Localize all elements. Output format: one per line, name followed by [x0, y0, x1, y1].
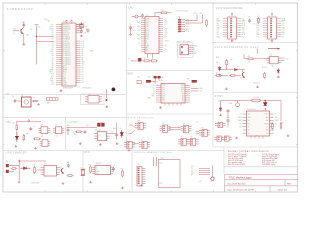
speaker dot SP1 — [112, 88, 116, 92]
capacitor C21 — [227, 119, 230, 123]
svg-text:DTR: DTR — [162, 85, 165, 87]
wire glcd v1 — [226, 66, 228, 69]
svg-text:BLK: BLK — [162, 98, 165, 100]
resistor R6 below IC2 — [150, 60, 158, 62]
svg-text:D5: D5 — [52, 41, 54, 43]
svg-text:PC5: PC5 — [217, 32, 220, 34]
svg-text:GND: GND — [181, 87, 184, 89]
wire glcd h3 — [221, 75, 228, 77]
section box speaker — [81, 94, 105, 105]
capacitor C18 — [115, 133, 118, 137]
wire diode down — [264, 110, 266, 111]
ic T3 box — [270, 57, 279, 64]
svg-text:VCC: VCC — [162, 91, 165, 93]
wire J6 left a — [196, 131, 200, 133]
svg-text:R28: R28 — [74, 134, 77, 136]
svg-text:1K: 1K — [144, 58, 146, 60]
speaker IC4 pins — [85, 97, 88, 101]
inductor L2 ufl — [32, 100, 39, 102]
svg-text:470: 470 — [248, 56, 251, 58]
svg-text:5V: 5V — [165, 26, 167, 28]
ground 5v a — [235, 137, 238, 139]
capacitor C9 — [87, 29, 90, 33]
svg-text:D8: D8 — [165, 49, 167, 51]
led D4 — [219, 107, 222, 112]
bob IC3 left pins — [156, 86, 161, 103]
resistor R11 — [229, 75, 236, 77]
wire IC2 bottom a — [147, 54, 149, 58]
svg-text:J15: J15 — [137, 164, 139, 166]
transistor Q2 — [243, 72, 245, 78]
charger IC7 body — [44, 166, 57, 177]
ground lipo a — [62, 182, 65, 184]
arrow glcd — [278, 48, 281, 50]
wire bob v1 — [154, 78, 156, 83]
svg-text:1K: 1K — [228, 73, 230, 75]
svg-text:D12: D12 — [82, 45, 85, 47]
wire Q1 collector vertical — [23, 22, 25, 29]
svg-text:TX0: TX0 — [137, 30, 140, 32]
svg-text:D9: D9 — [120, 128, 122, 130]
sd J15 contacts — [138, 168, 140, 184]
connector J9 — [178, 139, 189, 146]
svg-text:OSC: OSC — [6, 121, 12, 124]
ground lipo b — [18, 181, 21, 183]
svg-text:1u: 1u — [13, 33, 15, 35]
usb X1 pins — [189, 46, 194, 53]
svg-text:IN: IN — [248, 127, 250, 129]
svg-text:SP: SP — [89, 94, 91, 96]
regulator IC5 body — [98, 132, 107, 141]
svg-text:VCC: VCC — [194, 13, 197, 15]
speaker IC4 — [88, 96, 99, 104]
wire Q1 emitter vertical — [23, 34, 25, 43]
svg-text:VIN: VIN — [239, 127, 241, 129]
inductor L1 — [251, 99, 262, 101]
svg-text:R19: R19 — [12, 165, 15, 167]
svg-text:LED: LED — [230, 59, 233, 61]
junction 5v — [265, 100, 266, 101]
oscillator Q4 pins — [53, 128, 56, 132]
wire J9-J10 — [186, 140, 188, 142]
cpu IC2 right pins — [159, 18, 163, 51]
ground 3v3 c — [116, 142, 119, 144]
svg-text:BOB: BOB — [128, 72, 134, 75]
wire U1 right pin4 — [76, 26, 79, 28]
svg-text:SCK: SCK — [181, 102, 184, 104]
ground ufl — [37, 103, 40, 105]
svg-text:C4: C4 — [129, 24, 131, 26]
svg-text:CTS: CTS — [162, 93, 165, 95]
ufl connector X2 — [22, 97, 32, 107]
svg-text:10u: 10u — [111, 132, 114, 134]
svg-text:Q4: Q4 — [56, 136, 58, 138]
wire glcd h1 — [219, 69, 245, 71]
svg-text:1K: 1K — [152, 58, 154, 60]
capacitor C22 lipo — [67, 164, 70, 168]
ground 3v3 b — [99, 143, 102, 145]
svg-text:5V: 5V — [129, 58, 131, 60]
resistor R4 reset pullup — [160, 12, 168, 14]
svg-text:VCC: VCC — [137, 38, 140, 40]
svg-text:4.7K: 4.7K — [253, 24, 256, 26]
svg-text:GPIO1: GPIO1 — [165, 41, 170, 43]
oscillator Q3 — [41, 127, 48, 134]
svg-text:D10: D10 — [82, 41, 85, 43]
svg-text:VCC: VCC — [282, 30, 285, 32]
diode D8 osc — [15, 132, 18, 142]
svg-text:PD2: PD2 — [257, 27, 260, 29]
wire speaker v — [106, 90, 108, 99]
svg-text:MOSI: MOSI — [50, 28, 54, 30]
svg-text:XT1: XT1 — [51, 82, 54, 84]
svg-text:SER: SER — [137, 121, 140, 123]
svg-text:CTS: CTS — [152, 93, 155, 95]
svg-text:D6: D6 — [52, 39, 54, 41]
svg-text:FB: FB — [248, 120, 250, 122]
svg-text:GRN: GRN — [162, 100, 165, 102]
svg-text:0.1u: 0.1u — [113, 128, 116, 130]
svg-text:TX: TX — [153, 89, 155, 91]
svg-text:RX0: RX0 — [137, 26, 140, 28]
svg-text:GND: GND — [194, 53, 197, 55]
svg-text:PB1: PB1 — [146, 37, 149, 39]
capacitor C20 — [227, 109, 230, 113]
circle L1b — [236, 103, 240, 107]
svg-text:RST: RST — [181, 89, 184, 91]
wire bob sj — [151, 80, 155, 82]
svg-text:D3: D3 — [52, 45, 54, 47]
svg-text:SCK: SCK — [191, 172, 194, 174]
battery connector J14 — [6, 164, 9, 167]
svg-text:J2: J2 — [177, 17, 179, 19]
lcd header JP1 — [223, 17, 241, 39]
svg-text:3V3: 3V3 — [191, 166, 194, 168]
connector J11 — [215, 123, 226, 128]
diode D1 below IC2 — [138, 58, 141, 61]
wire reset button — [132, 16, 136, 18]
diode D6 — [21, 167, 31, 170]
svg-text:X2: X2 — [22, 95, 24, 97]
svg-text:GND: GND — [165, 28, 168, 30]
svg-text:TEST: TEST — [146, 51, 150, 53]
svg-text:MOSI: MOSI — [242, 23, 246, 25]
svg-text:10K: 10K — [30, 29, 33, 31]
boost IC6 body — [247, 111, 270, 136]
power U1 vcc a — [65, 20, 67, 23]
transistor Q1 — [21, 28, 23, 34]
svg-text:TITLE: MayNeoLogger: TITLE: MayNeoLogger — [229, 176, 252, 179]
svg-text:VCC: VCC — [282, 36, 285, 38]
ufl X2 inner — [24, 100, 28, 104]
reset button S1 — [135, 15, 138, 18]
section divider horizontal y=42.5 right — [213, 42, 298, 44]
svg-text:R7: R7 — [257, 16, 259, 18]
wire 5v r18 — [280, 101, 282, 122]
svg-text:VCC: VCC — [146, 22, 149, 24]
svg-text:LX: LX — [275, 127, 277, 129]
wire T3 right — [281, 57, 284, 59]
antenna circle E1 — [211, 177, 214, 180]
svg-text:FB: FB — [267, 133, 269, 135]
svg-text:PB2: PB2 — [146, 39, 149, 41]
ground crystal — [80, 35, 83, 37]
capacitor C12 lcd — [248, 19, 251, 23]
svg-text:GND: GND — [146, 18, 149, 20]
svg-text:VIN: VIN — [67, 125, 69, 127]
connector J10 — [188, 139, 199, 146]
title block top line — [225, 173, 298, 175]
svg-text:OSC: OSC — [26, 133, 29, 135]
ground glcd2 — [256, 86, 259, 88]
svg-text:MICROSD (ADAFRUIT P/N 1660): MICROSD (ADAFRUIT P/N 1660) — [134, 151, 172, 154]
section divider horizontal y=94.5 left — [3, 94, 127, 96]
svg-text:LX: LX — [267, 127, 269, 129]
connector J4 — [160, 125, 171, 132]
ground C11 — [129, 33, 132, 35]
wire lipo 3 — [37, 169, 45, 171]
connector J5 — [181, 126, 192, 133]
svg-text:TX: TX — [165, 18, 167, 20]
svg-text:5 VOLT: 5 VOLT — [215, 95, 224, 98]
svg-text:GLCD BUTTONPAD PG lower): GLCD BUTTONPAD PG lower) — [215, 46, 260, 49]
title block line 3 — [225, 185, 298, 187]
resistor R22 rtc — [90, 166, 92, 174]
svg-text:TX0: TX0 — [257, 36, 260, 38]
svg-text:IC2: IC2 — [146, 14, 149, 16]
led D7 glcd — [218, 66, 221, 71]
svg-text:D8: D8 — [52, 35, 54, 37]
svg-text:DTR: DTR — [152, 85, 155, 87]
capacitor C15 osc — [29, 127, 32, 131]
frame grid ticks — [3, 3, 298, 192]
usb connector X1 — [180, 45, 189, 55]
regulator IC5 pins — [95, 134, 98, 139]
svg-text:BOB1: BOB1 — [159, 80, 163, 82]
ground osc2 — [34, 147, 37, 149]
svg-text:3V3: 3V3 — [51, 74, 54, 76]
svg-text:MOSI: MOSI — [242, 34, 246, 36]
svg-text:Extra connectors: Extra connectors — [128, 116, 155, 119]
wire reset net — [155, 12, 160, 14]
diode D2 — [235, 68, 238, 70]
svg-text:PD3(INT1): PD3(INT1) — [63, 45, 71, 47]
svg-text:PB1(OC1): PB1(OC1) — [63, 33, 70, 35]
svg-text:GLCD_BL: GLCD_BL — [254, 83, 261, 85]
svg-text:MIC5205: MIC5205 — [95, 129, 101, 131]
title block sheet divider — [269, 186, 271, 192]
solder jumper SJ5 — [146, 80, 151, 83]
svg-text:R14: R14 — [187, 79, 190, 81]
wire below IC2 — [131, 60, 137, 62]
notes block bottom line — [224, 166, 298, 168]
svg-text:LCD: LCD — [286, 58, 289, 60]
svg-text:Document Number:: Document Number: — [228, 182, 247, 185]
svg-text:GND: GND — [255, 136, 258, 138]
wire J4-J5 a — [169, 126, 181, 128]
wire FTDI top — [179, 17, 181, 20]
wire bus vertical x=36 — [35, 27, 37, 65]
section divider vertical x=132 (RTC/MICROSD) — [131, 151, 133, 193]
bob IC3 bottom pins — [165, 103, 181, 106]
svg-text:ID: ID — [194, 51, 195, 53]
svg-text:PD4(XCK): PD4(XCK) — [63, 43, 71, 45]
svg-text:X1: X1 — [96, 167, 98, 169]
svg-text:RXD: RXD — [146, 26, 149, 28]
svg-text:J14: J14 — [5, 161, 7, 163]
svg-text:Y2: Y2 — [81, 167, 83, 169]
resistor R23 rtc — [122, 170, 124, 178]
resistor R20 lipo — [34, 166, 36, 174]
svg-text:32K: 32K — [41, 125, 44, 127]
svg-text:D2: D2 — [52, 47, 54, 49]
svg-text:PB2(SS): PB2(SS) — [63, 30, 69, 32]
svg-text:0.1u: 0.1u — [22, 22, 25, 24]
svg-text:RX: RX — [165, 20, 167, 22]
bob IC3 body — [161, 84, 185, 104]
ground osc1 — [14, 145, 17, 147]
svg-text:5V: 5V — [153, 91, 155, 93]
sd connector J15 — [137, 167, 142, 187]
ground led D7 — [218, 74, 221, 76]
svg-text:L1 10uH: L1 10uH — [253, 97, 259, 99]
ground rtc a — [89, 181, 92, 183]
microcontroller U1 left pins — [56, 25, 62, 85]
wire IC2 bottom b — [152, 54, 154, 58]
svg-text:VCC: VCC — [217, 30, 220, 32]
svg-text:RX TX: RX TX — [154, 82, 158, 84]
title block rev divider — [284, 180, 286, 186]
svg-text:IC7: IC7 — [45, 163, 47, 165]
svg-text:SCK: SCK — [50, 24, 53, 26]
sd socket notch — [159, 163, 163, 183]
wire U1 right pin3 — [76, 28, 79, 30]
svg-text:TXD: TXD — [146, 24, 149, 26]
svg-text:MOSI: MOSI — [282, 18, 286, 20]
section box mini USB — [178, 43, 194, 58]
ground sd — [140, 184, 143, 186]
svg-text:PD2: PD2 — [257, 32, 260, 34]
svg-text:XT: XT — [138, 43, 140, 45]
power JP1 — [231, 13, 233, 16]
svg-text:J10: J10 — [190, 137, 192, 139]
power U1 vcc b — [70, 20, 72, 23]
svg-text:EN: EN — [240, 123, 242, 125]
svg-text:R2: R2 — [48, 21, 50, 23]
ground 3v3 a — [79, 142, 82, 144]
svg-text:3V3: 3V3 — [86, 125, 89, 127]
svg-text:BL: BL — [237, 66, 239, 68]
capacitor C16 — [67, 128, 70, 132]
svg-text:SCK: SCK — [242, 30, 245, 32]
resistor R5 below IC2 — [143, 60, 151, 62]
svg-text:VCC: VCC — [46, 19, 49, 21]
svg-text:EN: EN — [248, 123, 250, 125]
ground glcd3 — [277, 76, 280, 78]
wire bob v2 — [158, 78, 160, 80]
resistor R26 osc — [23, 134, 25, 141]
svg-text:X2: X2 — [96, 169, 98, 171]
svg-text:RTC: RTC — [85, 151, 90, 154]
wire ufl — [17, 100, 22, 102]
svg-text:MOSI: MOSI — [242, 25, 246, 27]
ground J7 — [128, 149, 130, 151]
pullup network antenna — [212, 166, 214, 178]
wire J4-J5 b — [169, 128, 181, 130]
wire sd v2 — [156, 157, 158, 166]
svg-text:D8: D8 — [82, 82, 84, 84]
svg-text:SCL: SCL — [82, 63, 85, 65]
section divider vertical x=224 (MICROSD/notes) — [223, 147, 225, 175]
ground JP1 — [231, 40, 234, 42]
svg-text:VCC: VCC — [181, 91, 184, 93]
svg-text:BTN: BTN — [216, 57, 219, 59]
wire IC3 right b — [191, 90, 199, 92]
svg-text:D3: D3 — [82, 72, 84, 74]
svg-text:RX0: RX0 — [51, 51, 54, 53]
wire 5v top bus — [221, 100, 252, 102]
svg-text:Y1: Y1 — [84, 22, 86, 24]
pin header J2 FTDI — [178, 19, 185, 32]
svg-text:GND: GND — [238, 117, 241, 119]
charger IC7 pins — [41, 168, 45, 175]
resistor R18 5v — [280, 122, 282, 130]
capacitor C7 — [22, 23, 25, 27]
cpu IC2 body — [145, 17, 159, 54]
svg-text:C2: C2 — [44, 19, 46, 21]
connector small bob — [137, 81, 142, 84]
svg-text:Date: 9/21/2014 12:27:25 PM: Date: 9/21/2014 12:27:25 PM — [228, 188, 254, 191]
svg-text:Solder jumper information: Solder jumper information — [228, 150, 269, 153]
capacitor C23 rtc — [112, 167, 115, 171]
resistor R21 lipo — [67, 175, 74, 177]
title block line 2 — [225, 179, 298, 181]
capacitor C17 — [84, 130, 87, 134]
section divider vertical x=83 (LIPO/RTC) — [82, 151, 84, 193]
svg-text:PB4(MISO): PB4(MISO) — [63, 26, 71, 28]
svg-text:PD2: PD2 — [242, 36, 245, 38]
svg-text:3.3 VOLT: 3.3 VOLT — [67, 121, 78, 124]
svg-text:SS: SS — [51, 30, 53, 32]
wire glcd R9-T3 — [253, 58, 270, 60]
section divider horizontal y=92.5 right — [213, 92, 298, 94]
svg-text:D2: D2 — [82, 70, 84, 72]
svg-text:R15: R15 — [13, 123, 16, 125]
wire glcd h2 — [242, 70, 244, 72]
page border frame — [3, 3, 298, 192]
wire J3 diag a — [129, 130, 136, 133]
capacitor C10 reset — [141, 14, 144, 18]
svg-text:TX0: TX0 — [51, 49, 54, 51]
section divider horizontal y=114 mid — [127, 113, 214, 115]
section divider horizontal y=147 right — [213, 146, 298, 148]
svg-text:Q5: Q5 — [60, 167, 62, 169]
svg-text:3V3: 3V3 — [51, 76, 54, 78]
resistor R8 — [226, 59, 228, 66]
svg-text:GND: GND — [26, 35, 29, 37]
microcontroller U1 body — [62, 23, 76, 86]
ground Q1 emitter — [22, 43, 25, 46]
crystal Y2 rtc — [81, 169, 85, 175]
svg-text:PC5: PC5 — [282, 34, 285, 36]
resistor R7 lcd — [258, 17, 260, 24]
svg-text:IC6 NCP1402: IC6 NCP1402 — [247, 109, 256, 111]
svg-text:SJ3: GLCD BL enable: SJ3: GLCD BL enable — [228, 158, 243, 160]
svg-text:PD1(TXD): PD1(TXD) — [63, 49, 70, 51]
svg-text:R17: R17 — [271, 123, 274, 125]
svg-text:1K: 1K — [216, 73, 218, 75]
svg-text:C23: C23 — [112, 166, 115, 168]
